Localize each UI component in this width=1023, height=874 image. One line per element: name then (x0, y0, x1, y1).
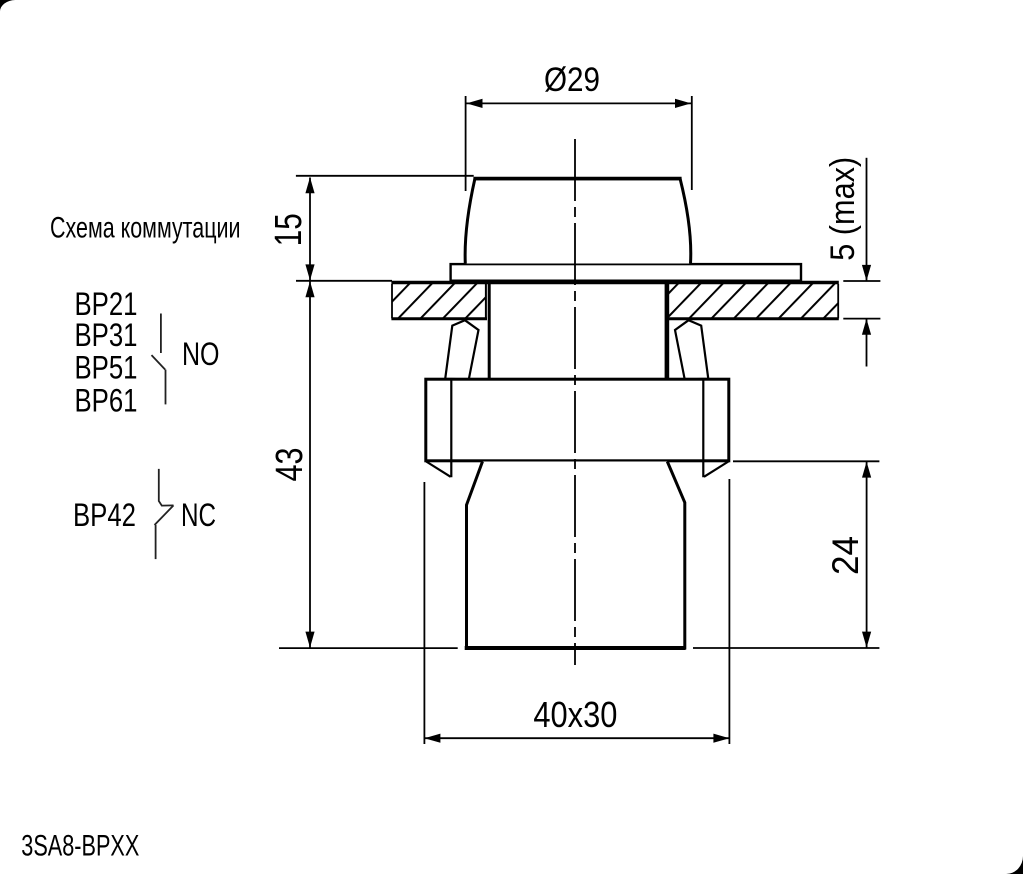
svg-text:24: 24 (825, 536, 866, 575)
svg-text:Ø29: Ø29 (544, 61, 600, 99)
svg-text:43: 43 (269, 448, 311, 482)
svg-text:NC: NC (181, 497, 216, 533)
svg-text:Схема коммутации: Схема коммутации (50, 211, 241, 244)
svg-text:40x30: 40x30 (533, 694, 617, 735)
svg-text:NO: NO (182, 336, 220, 372)
svg-text:3SA8-BPXX: 3SA8-BPXX (21, 829, 139, 862)
svg-text:5 (max): 5 (max) (824, 157, 862, 261)
svg-text:BP31: BP31 (75, 317, 138, 353)
svg-text:BP61: BP61 (75, 382, 138, 418)
svg-text:15: 15 (268, 213, 310, 246)
svg-text:BP51: BP51 (75, 350, 138, 386)
svg-text:BP42: BP42 (73, 497, 136, 533)
